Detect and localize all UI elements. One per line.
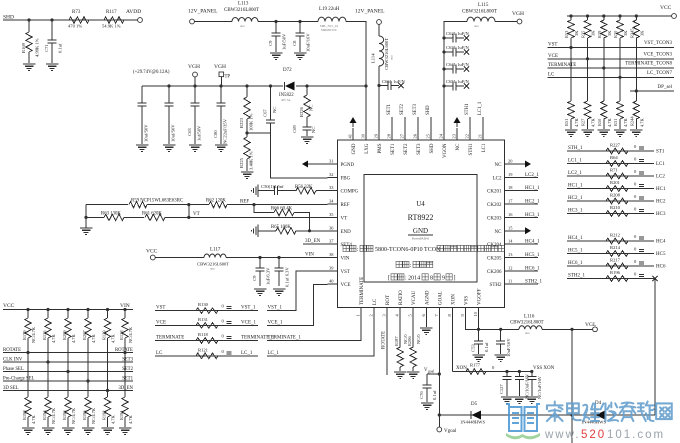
wire SHD stub: [430, 117, 432, 128]
svg-text:R121: R121: [198, 347, 209, 352]
pin 34 REF: [328, 203, 338, 205]
resistor R63 130K: [86, 216, 104, 218]
arrow above pin41 GND: [350, 117, 357, 123]
svg-text:0.1uf: 0.1uf: [432, 390, 437, 400]
node Vgoal: [437, 427, 442, 432]
svg-text:SET1: SET1: [122, 377, 134, 382]
inductor L114: [378, 24, 380, 36]
svg-text:12V_PANEL: 12V_PANEL: [355, 9, 385, 15]
resistor R135 4.7K: [46, 308, 49, 311]
U4 chinese title block: [343, 245, 349, 251]
svg-text:NC/4.7K: NC/4.7K: [31, 326, 36, 343]
capacitor C63: [193, 84, 196, 87]
svg-text:TERMINATE: TERMINATE: [548, 63, 576, 68]
svg-text:R177: R177: [470, 363, 481, 368]
resistor R194 NC/4.7K: [45, 397, 51, 417]
wire VGOFF: [478, 318, 480, 330]
svg-text:R201: R201: [610, 180, 621, 185]
svg-text:R65 100K: R65 100K: [271, 225, 291, 230]
ground: [581, 129, 594, 131]
svg-text:LC2_1: LC2_1: [568, 171, 582, 176]
wire: [85, 205, 87, 228]
resistor R207 4.7K: [86, 308, 89, 311]
ground: [614, 129, 627, 131]
svg-text:ROT: ROT: [386, 295, 391, 305]
svg-text:D72: D72: [283, 68, 292, 73]
resistor R209 4.7K: [66, 308, 69, 311]
net CLK INV: [3, 361, 133, 363]
svg-text:100K 1%: 100K 1%: [249, 113, 254, 131]
resistor R179 NC/4.7K: [26, 308, 29, 311]
wire VGH rail: [142, 85, 283, 87]
svg-text:3K: 3K: [591, 30, 596, 36]
svg-text:LC2_1: LC2_1: [525, 173, 539, 178]
watermark text: [547, 402, 563, 422]
svg-text:C8: C8: [292, 40, 297, 46]
svg-text:9: 9: [442, 276, 445, 282]
resistor R56 32K: [296, 188, 316, 194]
svg-text:4.7K: 4.7K: [623, 118, 628, 127]
svg-text:C80: C80: [213, 130, 218, 138]
svg-text:VCC: VCC: [146, 249, 158, 255]
svg-text:2: 2: [369, 314, 374, 316]
svg-text:VCE_1: VCE_1: [268, 320, 284, 325]
svg-text:1uF/6.3V: 1uF/6.3V: [266, 267, 271, 285]
net Phase SEL: [3, 371, 133, 373]
svg-text:LC2: LC2: [656, 175, 665, 180]
svg-text:REF: REF: [240, 200, 249, 205]
svg-text:AVDD: AVDD: [126, 9, 141, 15]
svg-text:12V_PANEL: 12V_PANEL: [188, 9, 218, 15]
pin 28 SET1: [391, 128, 393, 140]
svg-text:MMMW100: MMMW100: [321, 28, 337, 32]
svg-text:SHD: SHD: [426, 105, 431, 115]
svg-text:4.7K: 4.7K: [639, 118, 644, 127]
svg-text:R217: R217: [610, 258, 621, 263]
pin 39 VST: [328, 270, 338, 272]
pin 22 STH1: [469, 128, 471, 140]
svg-text:C127: C127: [499, 384, 504, 394]
resistor R187 NC/0: [399, 318, 401, 347]
ground: [62, 427, 75, 429]
svg-text:SET4: SET4: [341, 243, 353, 248]
resistor R129 4.7K: [106, 308, 109, 311]
svg-text:HC2_1: HC2_1: [568, 196, 583, 201]
svg-text:R226: R226: [299, 106, 304, 117]
svg-text:CBW3216L800T: CBW3216L800T: [510, 321, 544, 326]
net HC3_1: [515, 216, 539, 218]
svg-text:VGOFF: VGOFF: [478, 288, 483, 305]
svg-text:NC: NC: [309, 105, 314, 111]
svg-text:10uF/16V: 10uF/16V: [506, 338, 511, 357]
wire GOAL: [438, 318, 440, 428]
arrow above pin23 NC: [454, 117, 461, 123]
svg-text:C9: C9: [252, 275, 257, 281]
resistor R193 NC/4.7K: [65, 397, 71, 417]
svg-text:R71: R71: [610, 168, 618, 173]
resistor R225: [245, 131, 248, 134]
svg-text:R35: R35: [581, 30, 586, 38]
wire: [3, 19, 138, 21]
inductor L19: [318, 17, 346, 21]
svg-text:SET1: SET1: [391, 143, 396, 155]
wire FBG feedback: [247, 132, 271, 134]
svg-text:3K: 3K: [607, 30, 612, 36]
diode D4: [594, 411, 596, 419]
wire ROT: [386, 318, 388, 375]
svg-text:R30: R30: [613, 30, 618, 38]
wire to LXG: [346, 22, 366, 141]
capacitor C651 NC: [442, 84, 445, 87]
svg-text:LC_TCON7: LC_TCON7: [647, 71, 673, 76]
resistor R198 4.7K: [25, 397, 31, 417]
svg-text:520: 520: [581, 429, 606, 441]
pin 21 LC1: [482, 128, 484, 140]
resistor R223: [245, 84, 248, 87]
svg-text:4.99K 1%: 4.99K 1%: [35, 38, 40, 57]
svg-text:GND: GND: [352, 143, 357, 154]
svg-text:R207: R207: [82, 330, 87, 340]
svg-text:NC/4.7K: NC/4.7K: [128, 326, 133, 343]
svg-text:HC6: HC6: [656, 265, 666, 270]
svg-text:21: 21: [478, 134, 483, 138]
svg-text:R179: R179: [22, 330, 27, 340]
pin 20 NC: [505, 163, 515, 165]
svg-text:SHD: SHD: [430, 143, 435, 153]
svg-text:TERMINATE_1: TERMINATE_1: [268, 336, 302, 341]
pin 14 CK204: [505, 243, 515, 245]
svg-text:HC1: HC1: [656, 187, 666, 192]
svg-text:PowerPAD41: PowerPAD41: [412, 237, 430, 241]
svg-text:4.7K: 4.7K: [111, 334, 116, 343]
svg-text:LC1: LC1: [482, 143, 487, 152]
net 3D SEL: [3, 390, 133, 392]
pin 18 CK201: [505, 190, 515, 192]
svg-text:VST_1: VST_1: [241, 306, 256, 311]
svg-text:SET3: SET3: [413, 103, 418, 115]
pin 8 XON: [451, 308, 453, 318]
ground: [394, 371, 407, 373]
svg-text:R27: R27: [581, 118, 586, 126]
svg-text:: 2014: : 2014: [405, 276, 420, 282]
svg-text:1uf/50V: 1uf/50V: [197, 125, 202, 141]
inductor L117: [204, 254, 226, 257]
svg-text:COMPG: COMPG: [341, 190, 359, 195]
svg-text:VT: VT: [341, 216, 348, 221]
resistor R35 3K: [586, 14, 589, 17]
capacitor C631 NC: [442, 50, 445, 53]
pin 17 CK202: [505, 203, 515, 205]
ground: [241, 171, 254, 173]
svg-text:HC5_1: HC5_1: [568, 249, 583, 254]
svg-text:CK205: CK205: [487, 256, 502, 261]
resistor R62 120K: [209, 201, 227, 207]
net DP_sel: [630, 90, 674, 92]
junction col5: [635, 89, 638, 92]
svg-text:VGON: VGON: [443, 143, 448, 158]
svg-text:L115: L115: [478, 3, 489, 8]
ground: [565, 129, 578, 131]
svg-text:R64: R64: [610, 155, 618, 160]
capacitor NC/10uF/16V: [518, 370, 521, 373]
svg-text:VST: VST: [156, 306, 165, 311]
svg-text:R51: R51: [564, 119, 569, 126]
svg-text:uuu: uuu: [210, 267, 215, 271]
svg-text:R66 60.4K: R66 60.4K: [271, 207, 293, 212]
svg-text:0.1uf 6.3V: 0.1uf 6.3V: [285, 267, 290, 287]
pin 5 VCAU: [412, 308, 414, 318]
ground: [254, 288, 267, 290]
svg-text:R61 620K: R61 620K: [142, 212, 162, 217]
svg-text:L116: L116: [524, 315, 535, 320]
svg-text:Vgoal: Vgoal: [444, 429, 457, 434]
ground: [80, 227, 93, 229]
svg-text:R209: R209: [62, 330, 67, 340]
svg-text:TERMINATE: TERMINATE: [156, 336, 184, 341]
svg-text:R56 32K: R56 32K: [295, 185, 313, 190]
svg-text:VCE_TCON3: VCE_TCON3: [643, 52, 672, 57]
svg-text:STH2: STH2: [490, 283, 502, 288]
svg-text:HC6_1: HC6_1: [525, 266, 540, 271]
svg-text:]: ]: [454, 276, 456, 282]
svg-text:VCE: VCE: [156, 320, 166, 325]
svg-text:4.7K: 4.7K: [128, 415, 133, 424]
resistor R130 0 ohm VST: [155, 310, 258, 312]
resistor R64 0 ohm row LC1_1: [567, 163, 654, 165]
svg-text:R191: R191: [119, 410, 124, 420]
svg-text:C53: C53: [471, 344, 476, 352]
svg-text:L117: L117: [210, 248, 221, 253]
ground: [301, 136, 314, 138]
svg-text:C631 1uF/N: C631 1uF/N: [446, 45, 470, 50]
capacitor C127: [505, 370, 508, 373]
svg-text:1uF/50V: 1uF/50V: [282, 33, 287, 50]
resistor R27 4.7K: [584, 101, 590, 119]
svg-text:VST: VST: [341, 270, 350, 275]
arrow pin31 PGND: [312, 163, 328, 165]
svg-text:1N4448HWS: 1N4448HWS: [460, 420, 485, 425]
svg-text:12: 12: [508, 265, 512, 270]
svg-text:NC/1uF/16V: NC/1uF/16V: [537, 375, 542, 399]
svg-text:3.48K 1%: 3.48K 1%: [249, 151, 254, 170]
pin 3 ROT: [386, 308, 388, 318]
svg-text:R187: R187: [394, 336, 399, 346]
diode D72: [284, 82, 286, 90]
svg-text:uuu: uuu: [525, 331, 530, 335]
svg-text:31: 31: [329, 159, 333, 164]
svg-text:5800-TCON6-0P10 TCON: 5800-TCON6-0P10 TCON: [375, 247, 441, 253]
svg-text:VCE: VCE: [548, 54, 558, 59]
svg-text:3K: 3K: [639, 30, 644, 36]
svg-text:HC4: HC4: [656, 240, 666, 245]
svg-text:R50: R50: [597, 118, 602, 126]
svg-text:R245: R245: [629, 28, 634, 38]
svg-text:R244: R244: [629, 116, 634, 126]
pin 27 SET2: [404, 128, 406, 140]
svg-text:0.1uf: 0.1uf: [58, 43, 63, 53]
arrow pin20 NC: [515, 163, 524, 165]
pin 13 CK205: [505, 256, 515, 258]
resistor R65 100K: [258, 230, 276, 232]
ground: [494, 354, 507, 356]
ground AGND: [425, 318, 427, 327]
svg-text:NC22uF/35V: NC22uF/35V: [223, 118, 228, 144]
capacitor C76: [427, 373, 439, 375]
svg-text:R196: R196: [610, 270, 621, 275]
pin 30 LXG: [365, 128, 367, 140]
svg-text:uuu: uuu: [474, 24, 479, 28]
svg-text:C9: C9: [268, 40, 273, 46]
capacitor C661 NC: [377, 84, 380, 87]
watermark logo book: [506, 404, 540, 431]
svg-text:NC: NC: [311, 127, 316, 133]
capacitor C69 NC: [303, 126, 312, 128]
svg-text:[: [: [388, 276, 390, 282]
svg-text:4.7K: 4.7K: [591, 118, 596, 127]
capacitor C9: [274, 20, 277, 23]
svg-text:DP_sel: DP_sel: [658, 85, 673, 90]
svg-text:8: 8: [430, 276, 433, 282]
svg-text:R39: R39: [597, 30, 602, 38]
svg-text:11: 11: [508, 279, 512, 284]
svg-text:VGH: VGH: [214, 64, 226, 70]
inductor L116: [519, 326, 542, 330]
svg-text:VCE: VCE: [341, 283, 351, 288]
svg-text:LC1: LC1: [656, 162, 665, 167]
svg-text:SET1: SET1: [387, 103, 392, 115]
inductor L113: [232, 17, 258, 21]
svg-text:LXG: LXG: [365, 143, 370, 154]
junction col1: [569, 46, 572, 49]
svg-text:PMS: PMS: [378, 143, 383, 153]
svg-text:ROTATE: ROTATE: [382, 331, 387, 349]
svg-text:GOAL: GOAL: [438, 291, 443, 305]
svg-text:R31: R31: [613, 119, 618, 126]
svg-text:LC_1: LC_1: [241, 351, 253, 356]
svg-text:C641 1uF/N: C641 1uF/N: [446, 62, 470, 67]
svg-text:VST_TCON3: VST_TCON3: [644, 41, 673, 46]
svg-text:R195: R195: [82, 410, 87, 420]
pin 32 FBG: [328, 176, 338, 178]
wire VGL rail: [479, 328, 520, 330]
pin 7 GOAL: [438, 308, 440, 318]
ground: [23, 63, 36, 65]
svg-text:C661 1uF/N: C661 1uF/N: [382, 79, 406, 84]
svg-text:FBG: FBG: [341, 176, 351, 181]
svg-text:R118: R118: [198, 332, 208, 337]
svg-text:HC4_1: HC4_1: [568, 236, 583, 241]
svg-text:VSS XON: VSS XON: [533, 366, 555, 371]
wire: [495, 21, 517, 23]
svg-text:CBW3216L800T: CBW3216L800T: [462, 10, 497, 15]
svg-text:VT: VT: [193, 212, 200, 217]
resistor R53 3K: [569, 14, 572, 17]
svg-text:4.7K: 4.7K: [574, 118, 579, 127]
svg-text:VCC: VCC: [3, 303, 15, 309]
svg-text:22: 22: [465, 134, 470, 138]
capacitor C50 2.5nf: [258, 190, 275, 192]
svg-text:3K: 3K: [574, 30, 579, 36]
resistor R31 4.7K: [617, 101, 623, 119]
wire: [226, 257, 328, 259]
svg-text:C63: C63: [187, 128, 192, 136]
svg-text:C71: C71: [44, 44, 49, 52]
svg-text:STH1: STH1: [469, 143, 474, 155]
svg-text:STH1: STH1: [465, 103, 470, 115]
svg-text:R227: R227: [610, 143, 621, 148]
svg-text:4.7K: 4.7K: [91, 334, 96, 343]
svg-text:R192: R192: [102, 410, 107, 420]
svg-text:54.9K 1%: 54.9K 1%: [102, 24, 121, 29]
ground: [421, 402, 434, 404]
svg-text:VCE_1: VCE_1: [241, 320, 257, 325]
svg-text:uuu: uuu: [390, 55, 394, 60]
svg-text:3D_EN: 3D_EN: [118, 386, 133, 391]
svg-text:4.7K: 4.7K: [71, 334, 76, 343]
resistor R206 NC/0: [412, 318, 414, 347]
svg-text:goal: goal: [428, 370, 434, 374]
svg-text:40V 3A: 40V 3A: [281, 98, 291, 102]
net STH2_1: [515, 283, 539, 285]
pin 9 VSS: [464, 308, 466, 318]
pin 26 SET3: [417, 128, 419, 140]
junction VIN resistor: [123, 351, 126, 354]
pin 25 SHD: [430, 128, 432, 140]
svg-text:LC1_1: LC1_1: [568, 159, 582, 164]
svg-text:NC: NC: [272, 107, 277, 113]
svg-text:R194: R194: [42, 410, 47, 420]
net HC4_1: [515, 243, 539, 245]
pin 19 LC2: [505, 176, 515, 178]
svg-text:RT8922: RT8922: [408, 213, 434, 222]
svg-text:NC/4.7K: NC/4.7K: [71, 407, 76, 424]
pin 4 RATIO: [399, 308, 401, 318]
resistor R210 0 ohm row HC3_1: [567, 213, 654, 215]
svg-text:C69: C69: [292, 125, 297, 133]
resistor R30 3K: [618, 14, 621, 17]
capacitor C?? 1uF/6.3V: [258, 256, 261, 259]
ground: [273, 288, 286, 290]
ground: [119, 427, 132, 429]
ground: [513, 396, 526, 398]
ground: [407, 371, 420, 373]
ground: [46, 63, 59, 65]
svg-text:(+29.74V@0.12A): (+29.74V@0.12A): [133, 70, 170, 75]
svg-text:4.7K: 4.7K: [31, 415, 36, 424]
pin 10 VGOFF: [478, 308, 480, 318]
svg-text:R59 NCP15WL683E63RC: R59 NCP15WL683E63RC: [131, 199, 183, 204]
svg-text:10uF/16V: 10uF/16V: [306, 33, 311, 52]
svg-text:NC: NC: [495, 230, 503, 235]
svg-text:LC: LC: [373, 298, 378, 305]
svg-text:R62 120K: R62 120K: [206, 199, 226, 204]
svg-text:XON: XON: [451, 294, 456, 305]
net TERMINATE TCON: [548, 67, 675, 69]
svg-text:SET2: SET2: [404, 143, 409, 155]
svg-text:HC6_1: HC6_1: [568, 261, 583, 266]
net HC5_1: [515, 257, 539, 259]
pin 29 PMS: [378, 128, 380, 140]
svg-text:D5: D5: [471, 402, 478, 407]
svg-text:R206: R206: [407, 336, 412, 346]
svg-text:XON: XON: [456, 366, 467, 371]
resistor R131 0 ohm VCE: [155, 324, 258, 326]
net VCE TCON: [548, 58, 675, 60]
resistor R195 NC/4.7K: [85, 397, 91, 417]
svg-text:CLK INV: CLK INV: [3, 358, 23, 363]
resistor R191 4.7K: [122, 397, 128, 417]
svg-text:CK203: CK203: [487, 216, 502, 221]
